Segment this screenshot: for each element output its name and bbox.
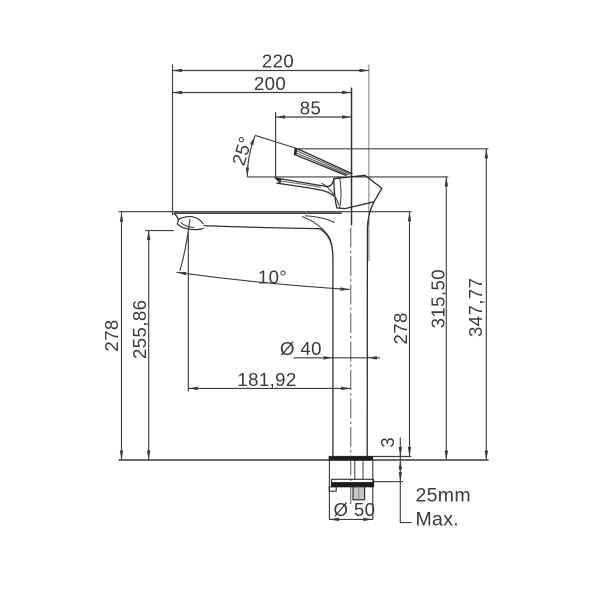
svg-text:220: 220 bbox=[262, 51, 294, 72]
svg-text:85: 85 bbox=[300, 98, 321, 119]
dimension line 200 bbox=[173, 92, 352, 94]
mounting washer outline bbox=[332, 479, 374, 487]
dimension line 3mm and 25mm leader at x=400.3 bbox=[400, 438, 411, 523]
svg-text:Max.: Max. bbox=[416, 509, 459, 531]
svg-text:347,77: 347,77 bbox=[465, 278, 486, 337]
svg-text:Ø 50: Ø 50 bbox=[334, 499, 376, 520]
dimension line 278 right bbox=[409, 212, 411, 457]
dimension text 278 left bbox=[101, 319, 122, 351]
svg-text:10°: 10° bbox=[258, 267, 287, 288]
dimension line diameter 50 bbox=[329, 518, 372, 520]
faucet aerator dome bbox=[178, 217, 204, 225]
angle dimension 10 deg arc bbox=[177, 272, 350, 289]
dimension line 278 left bbox=[121, 212, 123, 460]
faucet base flange bbox=[329, 456, 373, 460]
dimension text 3 bbox=[377, 437, 398, 448]
handle lever blade mid line 1 bbox=[296, 150, 351, 174]
faucet left waist curve into column bbox=[320, 229, 333, 457]
dimension text 255,86 bbox=[129, 300, 150, 359]
handle skirt front tip wedge bbox=[275, 178, 282, 185]
svg-text:200: 200 bbox=[254, 73, 286, 94]
deck surface line y=460 bbox=[119, 459, 489, 461]
extension line spout top y=211.7 bbox=[119, 211, 412, 213]
handle skirt bottom line bbox=[276, 183, 334, 196]
dimension text 25 deg bbox=[228, 134, 257, 168]
dimension line 347,77 bbox=[485, 149, 487, 460]
horizontal ray of 25 deg / extension of 315,50 at y=176.9 bbox=[247, 176, 448, 178]
handle lever blade bottom edge bbox=[294, 154, 346, 175]
dimension text 347,77 bbox=[465, 278, 486, 337]
svg-text:3: 3 bbox=[377, 437, 398, 448]
dimension text 315,50 bbox=[428, 269, 449, 328]
extension line right of 220 at x=368.9 bbox=[368, 65, 370, 262]
dimension line 315,50 bbox=[445, 177, 447, 460]
faucet aerator inner curve bbox=[181, 222, 195, 227]
svg-text:278: 278 bbox=[101, 319, 122, 351]
svg-text:255,86: 255,86 bbox=[129, 300, 150, 359]
faucet spout front face bbox=[174, 213, 178, 224]
faucet aerator bottom crescent bbox=[177, 224, 204, 230]
svg-text:181,92: 181,92 bbox=[237, 369, 296, 390]
extension line for 181,92 at x=189.5 bbox=[187, 233, 189, 392]
washer top extension y=481.7 bbox=[374, 481, 403, 483]
handle skirt top line bbox=[275, 178, 334, 187]
handle lever blade top edge bbox=[297, 149, 353, 174]
dimension line 220 bbox=[173, 70, 369, 72]
angle ray 10 deg at spout tip bbox=[180, 219, 190, 271]
angle ray 25 deg (along lever) bbox=[255, 135, 297, 148]
extension line for 85 left at x=275.6 bbox=[275, 112, 277, 177]
threaded stem bbox=[353, 487, 365, 500]
extension line left of 220/200 at x=172.5 bbox=[172, 65, 174, 216]
dimension line 255,86 bbox=[148, 231, 150, 460]
handle base block inner curve bbox=[340, 176, 341, 208]
extension line for 255,86 top y=230.6 bbox=[145, 230, 174, 232]
handle skirt mid line bbox=[278, 181, 322, 188]
svg-text:25mm: 25mm bbox=[416, 485, 471, 507]
faucet column right edge bbox=[367, 202, 374, 457]
faucet spout top edge bbox=[174, 212, 342, 214]
flange top line / 3mm extension y=456.5 bbox=[329, 456, 412, 458]
diameter 50 extension right x=372.8 bbox=[372, 461, 374, 520]
dimension line 85 bbox=[276, 116, 352, 118]
svg-text:278: 278 bbox=[390, 312, 411, 344]
threaded rod below deck bbox=[354, 461, 356, 480]
extension line centre for 200/85 at x=351.5 bbox=[351, 88, 353, 226]
dimension text 278 right bbox=[390, 312, 411, 344]
faucet inner left curve bbox=[302, 217, 332, 250]
faucet spout inner lip line bbox=[305, 216, 335, 223]
svg-text:315,50: 315,50 bbox=[428, 269, 449, 328]
diameter 50 extension left x=329.4 bbox=[328, 461, 330, 520]
mounting washer dark band bbox=[332, 482, 374, 487]
handle base inner swoosh bbox=[322, 183, 339, 205]
faucet spout underside bbox=[204, 226, 320, 229]
dimension line 181,92 bbox=[188, 387, 350, 389]
handle base block outline bbox=[334, 175, 382, 208]
angle dimension 25 deg arc bbox=[247, 136, 255, 177]
extension line handle top y=148.8 bbox=[295, 148, 489, 150]
centre line of column (dash-dot) bbox=[350, 228, 352, 506]
handle lever blade mid line 2 bbox=[295, 152, 349, 175]
washer left step bbox=[329, 487, 336, 491]
svg-text:Ø 40: Ø 40 bbox=[280, 338, 322, 359]
handle lever blade end cap bbox=[294, 148, 298, 156]
dimension line diameter 40 bbox=[294, 357, 380, 359]
